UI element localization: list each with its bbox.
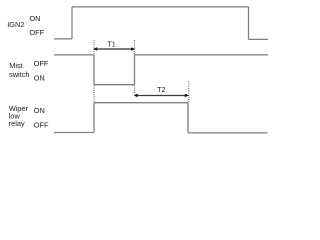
wire IGN2 OFF level right segment: [249, 38, 269, 40]
dimension line T2: [136, 95, 188, 97]
wire Wiper relay ON level segment: [94, 102, 188, 104]
wire IGN2 ON level segment: [72, 6, 249, 8]
dotted guide line at mist-switch rising edge lower part: [133, 85, 135, 93]
wire Mist switch OFF level right segment: [135, 54, 269, 56]
svg-text:T1: T1: [107, 39, 115, 48]
wire Wiper relay OFF level left segment: [54, 132, 94, 134]
svg-text:T2: T2: [157, 85, 165, 94]
dotted guide line at mist-switch falling edge lower part: [93, 85, 95, 102]
dimension line T1: [95, 48, 134, 50]
svg-text:ON: ON: [34, 74, 45, 83]
wire Wiper relay rising edge: [93, 103, 95, 133]
svg-text:Mist: Mist: [9, 61, 23, 70]
wire Wiper relay OFF level right segment: [188, 132, 268, 134]
svg-text:OFF: OFF: [34, 120, 49, 129]
dotted guide line at wiper-relay falling edge: [188, 82, 190, 103]
dotted guide line at mist-switch falling edge upper part: [93, 40, 95, 54]
wire IGN2 OFF level left segment: [54, 38, 72, 40]
arrowhead T1 left: [93, 47, 97, 51]
dotted guide line at mist-switch rising edge upper part: [133, 40, 135, 54]
wire Mist switch falling edge: [93, 55, 95, 85]
svg-text:relay: relay: [9, 119, 25, 128]
arrowhead T2 right: [185, 94, 189, 98]
wire IGN2 falling edge: [248, 7, 250, 40]
wire Wiper relay falling edge: [187, 103, 189, 133]
wire IGN2 rising edge: [71, 7, 73, 39]
arrowhead T1 right: [131, 47, 135, 51]
svg-text:OFF: OFF: [29, 28, 44, 37]
wire Mist switch rising edge: [134, 55, 136, 85]
svg-text:ON: ON: [34, 106, 45, 115]
svg-text:IGN2: IGN2: [7, 20, 24, 29]
svg-text:switch: switch: [9, 70, 30, 79]
wire Mist switch OFF level left segment: [54, 54, 94, 56]
svg-text:ON: ON: [29, 14, 40, 23]
arrowhead T2 left: [134, 94, 138, 98]
wire Mist switch ON level segment: [94, 84, 135, 86]
svg-text:OFF: OFF: [34, 59, 49, 68]
